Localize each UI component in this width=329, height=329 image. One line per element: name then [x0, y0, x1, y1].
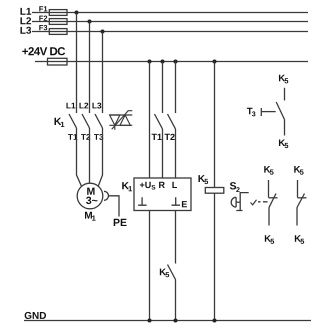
wire L1 rail — [32, 12, 308, 14]
node junction dot L2 — [88, 20, 92, 24]
fuse on +24V rail — [48, 58, 68, 65]
S2 mechanical link dashes — [258, 201, 268, 203]
wire control branch 1 (+Us) — [149, 62, 151, 179]
contact K5 (enable) — [168, 265, 176, 280]
wire control branch 2 upper — [162, 62, 164, 114]
wire +24V rail — [35, 61, 308, 63]
node junction dot +24V d — [213, 60, 217, 64]
PE terminal arc — [104, 191, 109, 200]
contact K5 NC-A lower label — [265, 235, 274, 244]
wire phase 3 to motor — [98, 128, 102, 186]
contact K1 pole 3 — [95, 114, 103, 128]
relay K5 coil — [205, 188, 224, 194]
S2 mushroom head — [231, 197, 236, 207]
motor 3~ — [86, 197, 97, 204]
contact K5 NC-B upper label — [294, 166, 303, 175]
GND label — [25, 312, 46, 319]
wire timer branch upper stub — [284, 88, 286, 101]
switch S2 label — [230, 182, 240, 192]
contact T1 label — [152, 134, 162, 140]
node K5 lower label (timer branch) — [279, 139, 288, 148]
terminal T1 label — [68, 134, 77, 140]
relay K5 coil label — [198, 175, 208, 184]
fuse F3 label — [39, 25, 47, 30]
node L3 label — [20, 27, 31, 34]
contact K1 pole 1 — [69, 114, 77, 128]
contact K5 NC-A blade — [269, 194, 276, 208]
contact T2 label — [165, 134, 175, 140]
wire NC-B lower stub — [296, 208, 298, 226]
wire control branch 2 lower — [162, 129, 164, 178]
contact K5 NC-B seat bar — [298, 197, 307, 199]
terminal L1 label — [66, 103, 75, 109]
contact K5 label — [160, 269, 169, 278]
wire phase 2 drop — [89, 22, 91, 114]
thyristor control diagonal — [112, 111, 133, 130]
fuse F1 — [49, 10, 67, 16]
contact K5 NC-B lower label — [295, 235, 304, 244]
node L2 label — [20, 17, 31, 24]
wire control branch 3 upper — [175, 62, 177, 114]
node junction dot GND b — [174, 319, 178, 323]
node junction dot L3 — [101, 30, 105, 34]
S2 latch check mark — [251, 200, 257, 205]
wire control branch 3 lower — [175, 129, 177, 178]
S2 actuator bracket — [236, 193, 248, 211]
fuse F1 label — [39, 6, 47, 11]
fuse F2 label — [39, 16, 47, 21]
wire box left output to GND — [149, 211, 151, 321]
contact T1 — [155, 114, 163, 129]
timer T3 label — [247, 108, 256, 117]
wire phase 1 drop — [76, 13, 78, 114]
terminal T2 label — [81, 134, 90, 140]
pin E label — [182, 201, 187, 207]
pin +Us label — [140, 182, 155, 190]
node K5 upper label (timer branch) — [279, 75, 288, 84]
internal ground symbol left — [138, 197, 147, 205]
node junction dot GND c — [213, 319, 217, 323]
wire NC-A upper stub — [268, 180, 270, 198]
soft starter box K1 — [134, 178, 191, 211]
timer T3 actuator tick — [260, 108, 262, 116]
contact T2 — [168, 114, 176, 129]
node junction dot +24V a — [148, 60, 152, 64]
wire NC-A lower stub — [268, 208, 270, 226]
wire box right output upper — [175, 211, 177, 264]
wire K5 coil branch lower — [214, 193, 216, 320]
wire L3 rail — [32, 31, 308, 33]
thyristor left triangle — [110, 115, 120, 125]
terminal T3 label — [94, 134, 103, 140]
soft starter K1 label — [122, 182, 132, 191]
fuse F2 — [49, 19, 67, 25]
wire NC-B upper stub — [297, 180, 299, 198]
motor letter M — [87, 188, 94, 195]
thyristor soft-start symbol top bar — [109, 114, 132, 116]
thyristor right triangle — [120, 115, 130, 125]
node junction dot +24V c — [174, 60, 178, 64]
contact T3 timed — [276, 102, 284, 120]
contact K1 pole 2 — [82, 114, 90, 128]
S2 stem — [236, 201, 240, 203]
contact K5 NC-A upper label — [264, 166, 273, 175]
terminal L2 label — [79, 103, 88, 109]
contactor K1 label — [55, 118, 65, 127]
wire PE — [109, 196, 120, 217]
node junction dot L1 — [75, 11, 79, 15]
contact K5 NC-B blade — [297, 194, 305, 208]
motor M1 label — [85, 212, 96, 221]
wire box right output lower — [175, 280, 177, 321]
wire L2 rail — [32, 21, 308, 23]
node junction dot +24V b — [161, 60, 165, 64]
wire phase 3 drop — [102, 32, 104, 114]
wire timer branch lower stub — [284, 120, 286, 136]
node junction dot GND a — [148, 319, 152, 323]
wire phase 1 to motor — [77, 128, 82, 186]
motor M1 circle — [77, 183, 103, 209]
node +24V DC label — [22, 47, 65, 55]
fuse F3 — [49, 29, 67, 35]
timer T3 actuator link — [261, 111, 275, 113]
thyristor soft-start symbol bottom bar — [109, 124, 132, 126]
contact K5 NC-A seat bar — [269, 197, 278, 199]
pin L label — [172, 182, 177, 188]
wire K5 coil branch upper — [214, 62, 216, 188]
wire GND rail — [24, 320, 311, 322]
internal ground symbol right — [172, 197, 181, 205]
wire phase 2 to motor — [89, 128, 91, 183]
PE label — [114, 219, 127, 226]
terminal L3 label — [92, 103, 101, 109]
pin R label — [159, 182, 165, 188]
node L1 label — [20, 8, 31, 15]
thyristor left cathode stub — [114, 125, 116, 130]
